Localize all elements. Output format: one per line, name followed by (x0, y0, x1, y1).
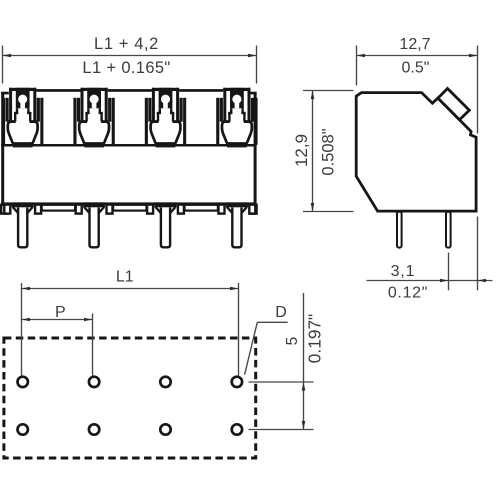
side view actuation button (438, 89, 469, 120)
front view dimension L1 + 4,2 / L1 + 0.165" (3, 35, 257, 84)
svg-text:0.197": 0.197" (304, 314, 324, 363)
pole 2 pedestal and pin (76, 202, 113, 247)
svg-text:L1 + 4,2: L1 + 4,2 (94, 35, 159, 53)
svg-text:12,7: 12,7 (399, 36, 430, 53)
side view dimension 12,7 / 0.5" (357, 36, 478, 134)
pole 3 contact (145, 88, 186, 148)
pole 2 contact (73, 88, 114, 148)
svg-text:5: 5 (284, 337, 301, 346)
svg-text:D: D (275, 304, 287, 321)
pole 4 contact (216, 88, 257, 148)
pole 1 contact (2, 88, 43, 148)
svg-text:L1: L1 (116, 269, 134, 286)
footprint dimension 5 / 0.197" (249, 293, 325, 430)
footprint dimension L1 (22, 269, 239, 376)
pole 3 pedestal and pin (147, 202, 184, 247)
footprint dimension P (22, 304, 93, 376)
footprint label D with leader (245, 304, 288, 375)
side view solder pin right (446, 212, 451, 248)
footprint hole row 1 (18, 377, 243, 387)
svg-text:0.5": 0.5" (402, 59, 430, 76)
footprint hole row 2 (18, 424, 243, 434)
front view body (1, 89, 257, 214)
svg-text:L1 + 0.165": L1 + 0.165" (82, 59, 170, 77)
pole 1 pedestal and pin (4, 202, 41, 247)
svg-text:12,9: 12,9 (292, 134, 311, 167)
svg-text:0.12": 0.12" (388, 285, 428, 302)
side view solder pin left (397, 212, 402, 248)
svg-text:0.508": 0.508" (320, 128, 338, 175)
side view body (356, 93, 476, 212)
side view dimension 12,9 / 0.508" (292, 91, 354, 212)
pole 4 pedestal and pin (219, 202, 256, 247)
svg-text:3,1: 3,1 (391, 263, 416, 280)
side view dimension 3,1 / 0.12" (367, 217, 493, 302)
footprint dashed body outline (4, 338, 256, 458)
svg-text:P: P (55, 304, 66, 321)
